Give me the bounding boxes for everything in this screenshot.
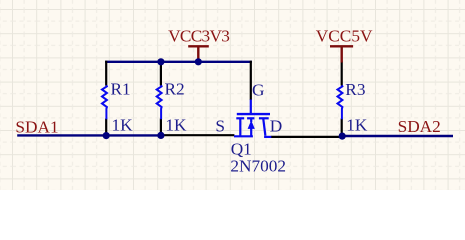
svg-text:VCC5V: VCC5V xyxy=(316,26,373,45)
svg-text:D: D xyxy=(270,116,282,135)
svg-text:R1: R1 xyxy=(111,80,131,99)
svg-text:SDA2: SDA2 xyxy=(398,117,441,136)
svg-text:SDA1: SDA1 xyxy=(15,118,58,137)
svg-text:R3: R3 xyxy=(345,80,365,99)
svg-text:1K: 1K xyxy=(112,115,134,134)
svg-text:G: G xyxy=(252,81,264,100)
svg-text:VCC3V3: VCC3V3 xyxy=(168,26,229,45)
svg-text:1K: 1K xyxy=(346,116,368,135)
svg-text:2N7002: 2N7002 xyxy=(230,157,286,176)
svg-text:Q1: Q1 xyxy=(231,139,252,158)
svg-text:R2: R2 xyxy=(165,80,185,99)
svg-text:1K: 1K xyxy=(165,115,187,134)
svg-text:S: S xyxy=(215,116,225,135)
